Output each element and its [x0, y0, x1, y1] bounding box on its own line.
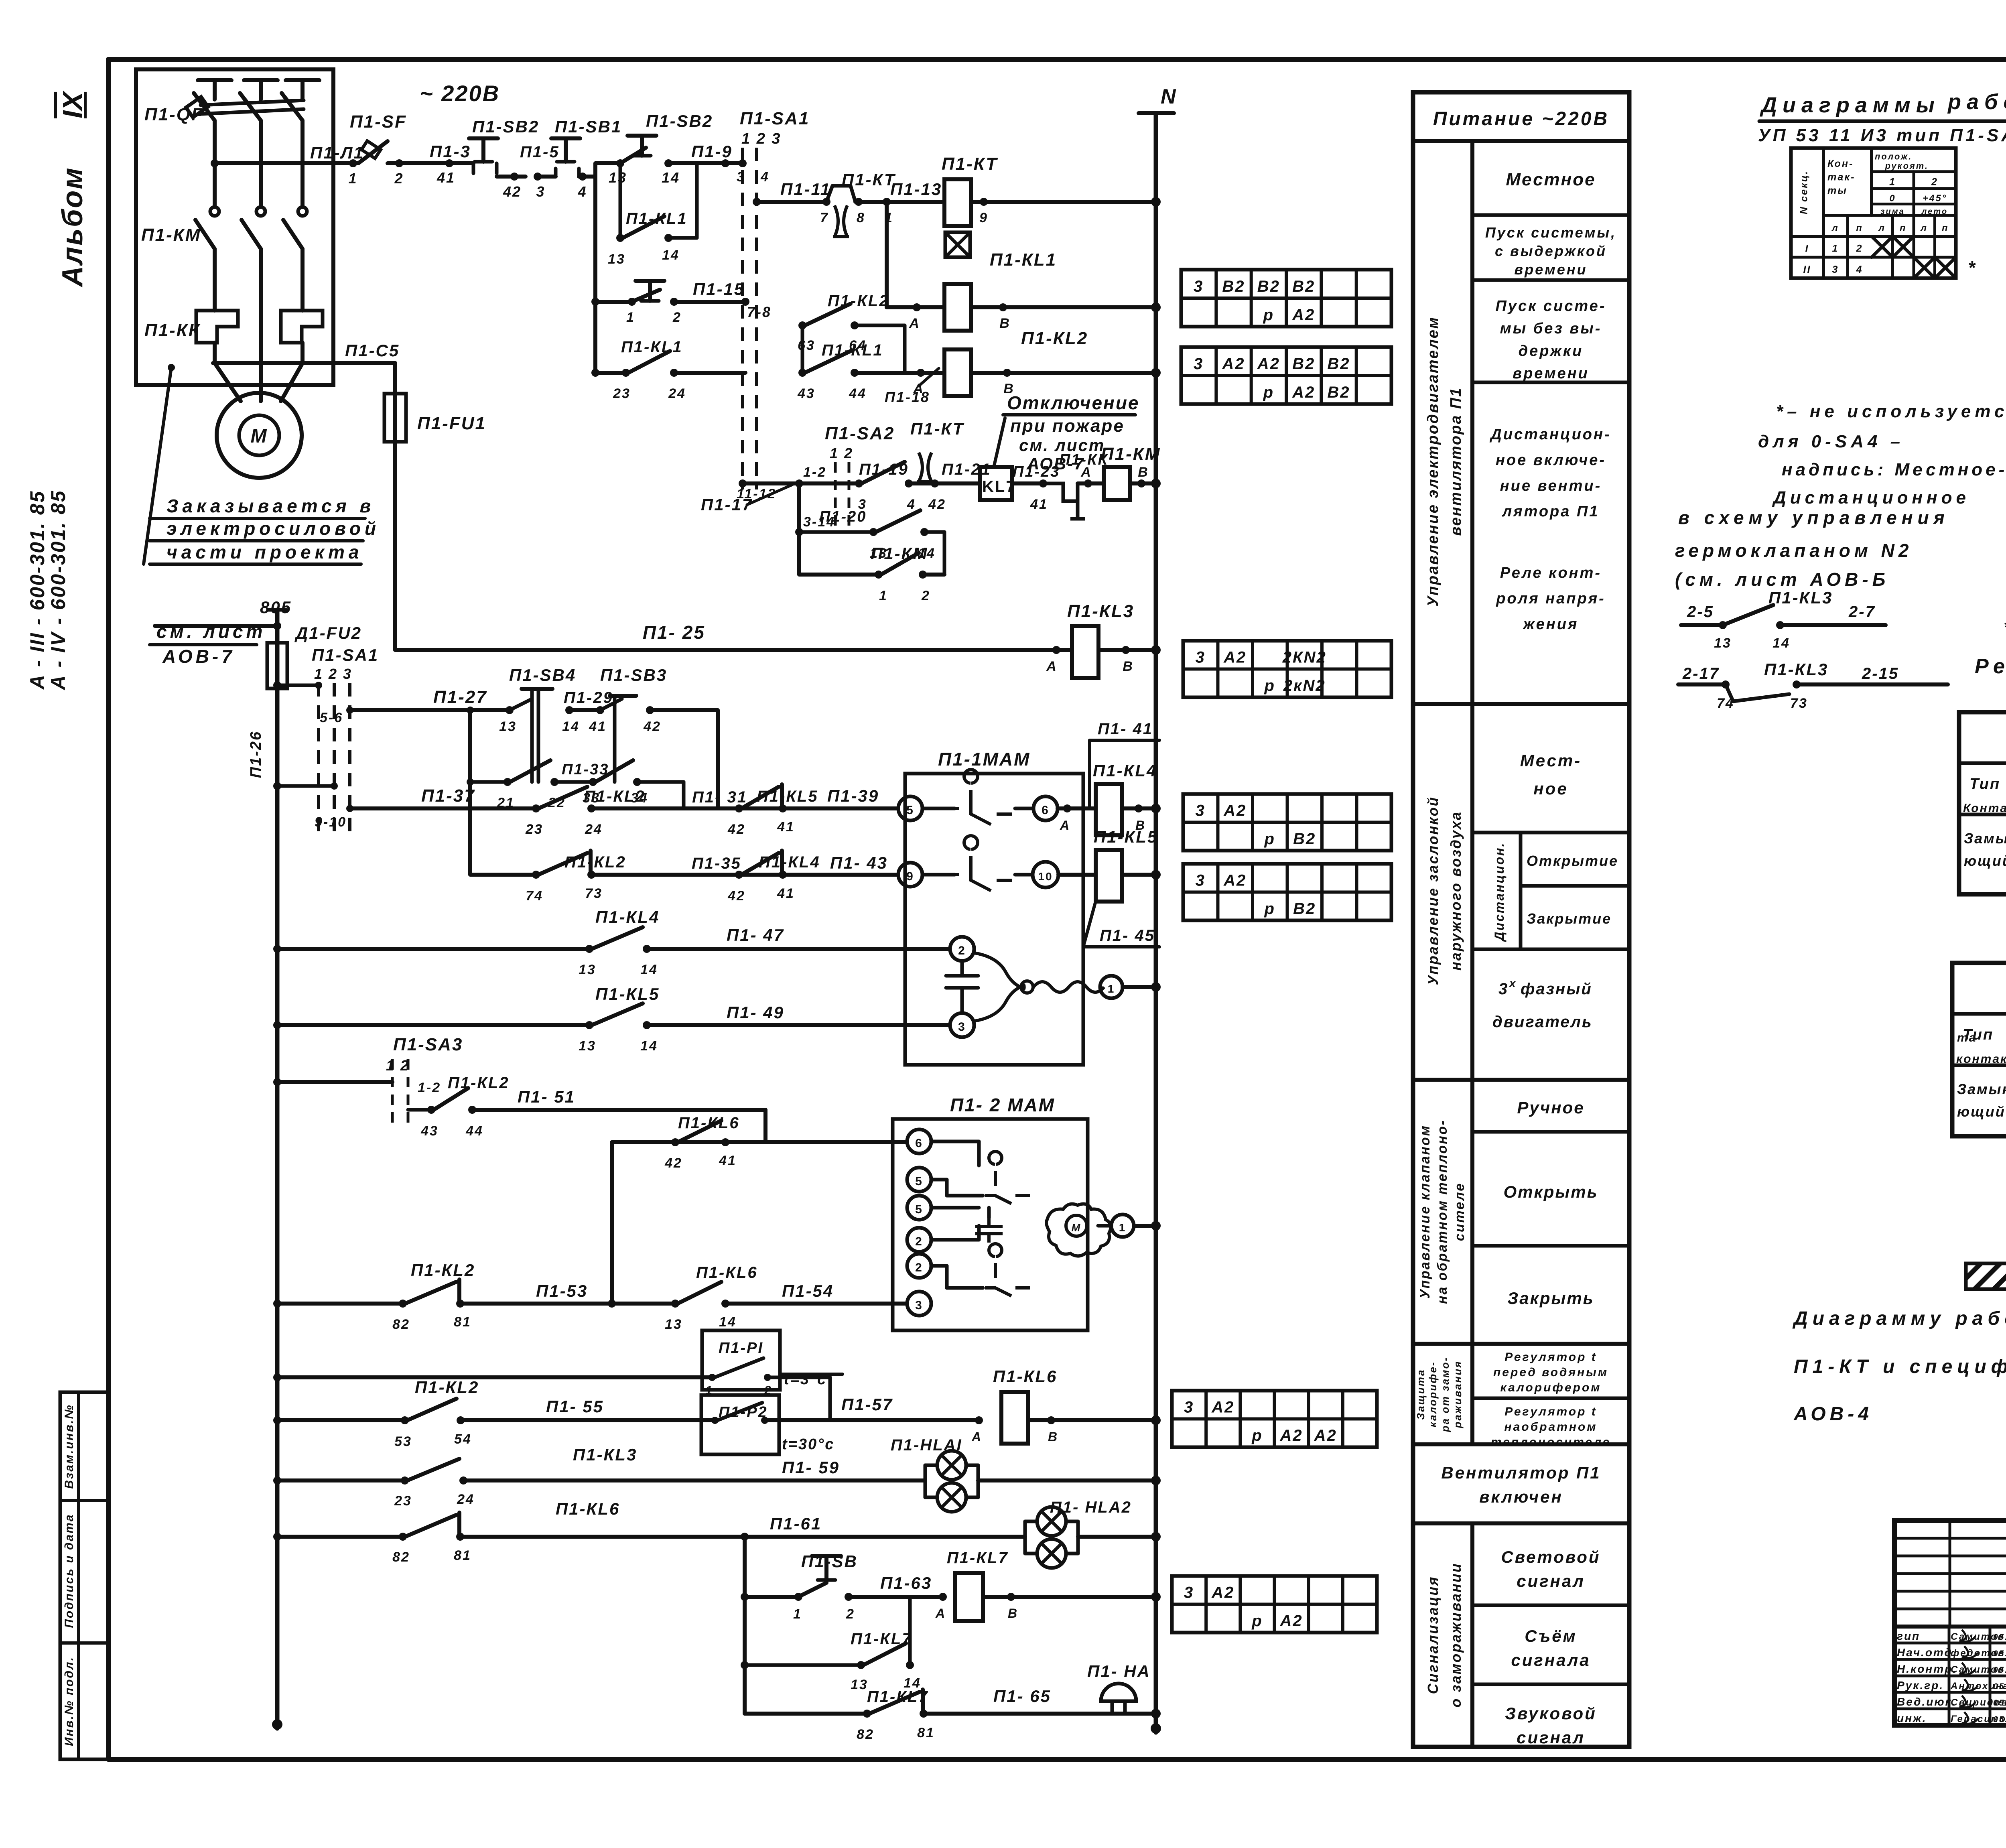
svg-text:П1-КL6: П1-КL6 [696, 1264, 758, 1281]
svg-text:II: II [1803, 264, 1811, 275]
svg-text:П1-КL5: П1-КL5 [1094, 827, 1158, 846]
svg-text:П1-3: П1-3 [430, 142, 471, 161]
svg-text:П1-КL2: П1-КL2 [828, 292, 889, 310]
svg-text:работы: работы [1947, 90, 2006, 114]
svg-text:82: 82 [392, 1549, 410, 1565]
svg-text:В2: В2 [1327, 384, 1350, 401]
svg-text:П1-КL6: П1-КL6 [678, 1114, 740, 1132]
svg-text:перед водяным: перед водяным [1493, 1366, 1608, 1379]
svg-text:73: 73 [585, 886, 603, 901]
svg-text:I: I [1805, 243, 1809, 254]
svg-text:5: 5 [915, 1203, 923, 1216]
svg-text:времени: времени [1514, 261, 1587, 278]
svg-text:+45°: +45° [1923, 193, 1947, 203]
svg-text:* – не используется: * – не используется [2004, 617, 2006, 637]
svg-text:3: 3 [1184, 1399, 1194, 1416]
svg-text:р: р [1263, 384, 1274, 401]
svg-text:53: 53 [394, 1434, 412, 1449]
svg-text:Закрыть: Закрыть [1507, 1289, 1594, 1308]
svg-text:Сигнализация: Сигнализация [1425, 1576, 1441, 1694]
svg-text:1-2: 1-2 [803, 465, 826, 480]
svg-text:Регулятор t: Регулятор t [1504, 1350, 1597, 1364]
svg-text:А2: А2 [1211, 1584, 1234, 1602]
svg-text:1 2: 1 2 [830, 445, 853, 461]
svg-text:П1-КL3: П1-КL3 [1768, 588, 1833, 607]
svg-text:Диаграмму работы реле време: Диаграмму работы реле времени [1792, 1308, 2006, 1329]
svg-text:10: 10 [1038, 870, 1053, 883]
svg-text:А: А [971, 1430, 982, 1444]
svg-text:л: л [1878, 223, 1886, 233]
svg-text:Диаграммы: Диаграммы [1760, 93, 1940, 117]
svg-text:держки: держки [1519, 343, 1584, 359]
svg-text:Реле конт-: Реле конт- [1500, 565, 1602, 581]
svg-text:14: 14 [562, 719, 580, 734]
svg-text:ние венти-: ние венти- [1500, 477, 1602, 494]
svg-text:Съём: Съём [1525, 1627, 1577, 1645]
svg-text:14: 14 [719, 1314, 737, 1330]
svg-text:П1-37: П1-37 [421, 786, 475, 806]
svg-text:р: р [1251, 1612, 1263, 1630]
svg-text:П1-КL5: П1-КL5 [595, 985, 660, 1003]
svg-text:А: А [1046, 659, 1058, 674]
svg-text:*: * [1968, 257, 1976, 278]
svg-text:6: 6 [915, 1137, 923, 1150]
svg-text:42: 42 [503, 183, 522, 200]
svg-text:А: А [1060, 818, 1070, 833]
svg-text:П1-Л1: П1-Л1 [310, 143, 364, 162]
svg-text:П1-КL1: П1-КL1 [822, 341, 883, 359]
svg-text:42: 42 [727, 822, 745, 837]
svg-text:t=30°c: t=30°c [782, 1436, 834, 1453]
svg-text:14: 14 [662, 248, 680, 263]
svg-text:3: 3 [1194, 278, 1204, 295]
svg-text:41: 41 [777, 886, 795, 901]
svg-text:Взам.инв.№: Взам.инв.№ [63, 1404, 76, 1489]
svg-text:П1- 45: П1- 45 [1100, 927, 1155, 944]
svg-text:р: р [1263, 306, 1274, 324]
svg-text:при пожаре: при пожаре [1010, 416, 1125, 436]
svg-text:П1-21: П1-21 [942, 461, 991, 478]
svg-text:Управление электродвигателем: Управление электродвигателем [1425, 316, 1442, 607]
svg-text:гип: гип [1897, 1630, 1920, 1642]
svg-text:ющий: ющий [1964, 853, 2006, 869]
svg-text:4: 4 [760, 169, 770, 185]
svg-text:П1-КL4: П1-КL4 [1093, 761, 1157, 780]
svg-text:05.84: 05.84 [1993, 1649, 2006, 1658]
svg-text:лятора П1: лятора П1 [1502, 503, 1600, 520]
svg-text:П1-КL2: П1-КL2 [411, 1261, 475, 1279]
svg-text:П1-КТ: П1-КТ [842, 170, 896, 189]
svg-text:двигатель: двигатель [1492, 1013, 1593, 1031]
svg-text:KL7: KL7 [982, 478, 1016, 496]
svg-text:7: 7 [820, 210, 829, 225]
svg-text:А2: А2 [1257, 355, 1280, 373]
svg-text:24: 24 [585, 822, 603, 837]
svg-text:электросиловой: электросиловой [166, 518, 380, 539]
svg-text:П1-КL1: П1-КL1 [990, 250, 1057, 270]
svg-text:В: В [999, 316, 1011, 331]
svg-text:А2: А2 [1223, 872, 1247, 889]
svg-text:1: 1 [348, 170, 357, 187]
svg-text:2: 2 [958, 944, 966, 957]
svg-text:сигнал: сигнал [1517, 1572, 1585, 1590]
svg-text:П1-27: П1-27 [433, 687, 487, 707]
svg-text:надпись: Местное-: надпись: Местное- [1782, 460, 2006, 479]
svg-text:43: 43 [420, 1123, 439, 1139]
svg-text:13: 13 [851, 1677, 868, 1692]
svg-text:П1-SB4: П1-SB4 [509, 666, 576, 684]
svg-text:та: та [1957, 1031, 1977, 1044]
svg-text:13: 13 [499, 719, 517, 734]
svg-text:о замораживании: о замораживании [1448, 1562, 1464, 1708]
svg-text:1: 1 [793, 1606, 802, 1622]
svg-text:74: 74 [526, 888, 543, 904]
svg-text:13: 13 [665, 1317, 682, 1332]
svg-text:П1-SA1: П1-SA1 [740, 109, 810, 128]
svg-text:Регуляторы температуры: Регуляторы температуры [1975, 655, 2006, 678]
svg-text:с выдержкой: с выдержкой [1495, 243, 1607, 259]
svg-text:А2: А2 [1314, 1427, 1337, 1444]
svg-text:1 2 3: 1 2 3 [741, 130, 782, 147]
svg-text:Д1-FU2: Д1-FU2 [294, 623, 362, 642]
svg-text:3: 3 [1498, 980, 1509, 998]
svg-text:П1-54: П1-54 [782, 1281, 834, 1300]
svg-text:П1-КК: П1-КК [144, 321, 201, 340]
svg-text:П1-КМ: П1-КМ [141, 225, 201, 245]
svg-text:23: 23 [525, 822, 543, 837]
svg-text:~ 220В: ~ 220В [420, 81, 500, 106]
svg-text:42: 42 [727, 888, 745, 904]
svg-text:П1-13: П1-13 [890, 180, 942, 199]
svg-text:п: п [1942, 223, 1949, 233]
svg-text:П1-5: П1-5 [520, 143, 560, 161]
svg-text:2-15: 2-15 [1862, 665, 1899, 682]
svg-text:П1-33: П1-33 [562, 761, 609, 778]
svg-text:2-17: 2-17 [1682, 665, 1720, 682]
svg-text:В: В [1123, 659, 1134, 674]
svg-text:раживания: раживания [1452, 1360, 1464, 1428]
svg-text:А2: А2 [1223, 649, 1247, 666]
svg-text:Тип: Тип [1969, 776, 2000, 792]
svg-text:2: 2 [394, 170, 404, 187]
svg-text:калорифером: калорифером [1500, 1381, 1602, 1394]
svg-text:1: 1 [626, 310, 635, 325]
svg-text:М: М [1072, 1222, 1082, 1234]
svg-text:р: р [1264, 900, 1275, 918]
svg-text:теплоносителе: теплоносителе [1491, 1436, 1611, 1449]
svg-text:05.84: 05.84 [1993, 1682, 2006, 1691]
svg-text:3: 3 [915, 1299, 923, 1312]
svg-text:П1-61: П1-61 [770, 1514, 822, 1533]
svg-text:рукоят.: рукоят. [1885, 161, 1929, 171]
svg-text:сителе: сителе [1452, 1182, 1467, 1241]
svg-text:5: 5 [915, 1175, 923, 1188]
svg-text:А2: А2 [1292, 384, 1315, 401]
svg-text:N секц.: N секц. [1799, 170, 1810, 214]
svg-text:П1-11: П1-11 [780, 180, 831, 199]
svg-text:п: п [1856, 223, 1863, 233]
svg-text:р: р [1264, 830, 1275, 848]
svg-text:5: 5 [906, 804, 914, 817]
svg-text:Звуковой: Звуковой [1505, 1704, 1597, 1723]
svg-text:В2: В2 [1292, 355, 1315, 373]
svg-text:9: 9 [979, 210, 988, 225]
svg-text:3: 3 [958, 1020, 966, 1034]
svg-text:N: N [1161, 85, 1177, 108]
svg-text:0: 0 [1889, 193, 1896, 203]
svg-text:П1-КТ: П1-КТ [942, 154, 998, 174]
svg-text:Управление заслонкой: Управление заслонкой [1425, 796, 1441, 985]
svg-text:В2: В2 [1292, 278, 1315, 295]
svg-text:П1-QF: П1-QF [144, 105, 203, 124]
svg-text:41: 41 [437, 169, 455, 186]
svg-text:П1-SB3: П1-SB3 [600, 666, 667, 684]
svg-text:42: 42 [928, 497, 946, 512]
svg-text:П1-19: П1-19 [859, 461, 909, 478]
svg-text:УП 53 11 И3 тип П1-SA3: УП 53 11 И3 тип П1-SA3 [1758, 126, 2006, 145]
svg-text:14: 14 [640, 962, 658, 977]
svg-text:1 2 3: 1 2 3 [314, 666, 352, 682]
svg-text:73: 73 [1790, 696, 1808, 711]
svg-text:жения: жения [1523, 616, 1579, 633]
svg-text:л: л [1831, 223, 1839, 233]
svg-text:Местное: Местное [1506, 170, 1596, 189]
svg-text:Дистанционное: Дистанционное [1772, 488, 1970, 508]
svg-text:П1- 31: П1- 31 [692, 788, 747, 806]
svg-text:П1-SA2: П1-SA2 [825, 424, 895, 443]
svg-text:3: 3 [1196, 649, 1206, 666]
svg-text:Ручное: Ручное [1517, 1098, 1584, 1117]
svg-text:Регулятор t: Регулятор t [1504, 1405, 1597, 1418]
svg-text:3: 3 [1196, 802, 1206, 820]
svg-text:В2: В2 [1222, 278, 1245, 295]
svg-text:М: М [251, 426, 268, 447]
svg-text:П1-КL6: П1-КL6 [556, 1499, 620, 1518]
svg-text:П1-КL6: П1-КL6 [993, 1367, 1057, 1386]
svg-text:П1-63: П1-63 [880, 1574, 932, 1592]
svg-text:П1-КL3: П1-КL3 [573, 1445, 637, 1464]
svg-text:7-8: 7-8 [747, 304, 772, 320]
svg-text:П1- 41: П1- 41 [1098, 720, 1153, 738]
svg-text:2: 2 [1856, 243, 1863, 254]
svg-text:П1-КL3: П1-КL3 [1764, 660, 1828, 679]
svg-text:полож.: полож. [1875, 152, 1912, 162]
svg-text:А2: А2 [1280, 1612, 1303, 1630]
svg-text:3: 3 [1832, 264, 1839, 275]
svg-text:41: 41 [1030, 497, 1048, 512]
svg-text:АОВ-7: АОВ-7 [162, 646, 235, 667]
svg-text:П1-PI: П1-PI [719, 1340, 763, 1357]
svg-text:П1-КL2: П1-КL2 [1021, 329, 1088, 348]
svg-text:Управление клапаном: Управление клапаном [1417, 1125, 1433, 1299]
svg-text:63: 63 [798, 338, 815, 353]
svg-text:Альбом: Альбом [57, 167, 89, 287]
svg-text:вентилятора П1: вентилятора П1 [1448, 387, 1464, 536]
svg-text:81: 81 [454, 1314, 471, 1330]
svg-text:6: 6 [1042, 804, 1050, 817]
svg-text:А2: А2 [1292, 306, 1315, 324]
svg-text:23: 23 [394, 1493, 412, 1509]
svg-text:13: 13 [1714, 636, 1732, 651]
svg-text:1: 1 [1832, 243, 1839, 254]
svg-text:на обратном теплоно-: на обратном теплоно- [1435, 1119, 1450, 1304]
svg-text:П1-35: П1-35 [692, 855, 741, 872]
svg-text:В: В [1048, 1430, 1058, 1444]
svg-text:24: 24 [668, 386, 686, 401]
svg-text:14: 14 [640, 1038, 658, 1054]
svg-text:сигнал: сигнал [1517, 1728, 1585, 1747]
svg-text:х: х [1509, 977, 1517, 989]
svg-text:8: 8 [857, 210, 865, 225]
svg-text:23: 23 [613, 386, 631, 401]
svg-text:П1- 2 МАМ: П1- 2 МАМ [950, 1095, 1055, 1115]
svg-text:Дистанцион.: Дистанцион. [1492, 842, 1507, 942]
svg-text:ное включе-: ное включе- [1496, 452, 1606, 469]
svg-text:А2: А2 [1222, 355, 1245, 373]
svg-text:р: р [1264, 677, 1275, 695]
svg-text:Вентилятор П1: Вентилятор П1 [1441, 1463, 1601, 1482]
svg-text:Инв.№ подл.: Инв.№ подл. [63, 1656, 76, 1746]
svg-text:3: 3 [1194, 355, 1204, 373]
svg-text:роля напря-: роля напря- [1496, 590, 1606, 607]
svg-text:П1-С5: П1-С5 [345, 341, 400, 360]
svg-text:В: В [1008, 1606, 1018, 1621]
svg-text:П1-SB2: П1-SB2 [646, 112, 713, 130]
svg-text:13: 13 [609, 169, 627, 186]
svg-text:П1-26: П1-26 [248, 731, 264, 778]
svg-text:1-2: 1-2 [418, 1080, 441, 1095]
svg-text:ное: ное [1533, 779, 1568, 798]
svg-text:44: 44 [465, 1123, 483, 1139]
svg-text:А: А [935, 1606, 946, 1621]
svg-text:Рук.гр.: Рук.гр. [1897, 1679, 1944, 1692]
svg-text:82: 82 [857, 1727, 874, 1742]
svg-text:2: 2 [672, 310, 682, 325]
svg-text:А2: А2 [1211, 1399, 1234, 1416]
svg-text:44: 44 [849, 386, 867, 401]
svg-text:14: 14 [1773, 636, 1790, 651]
svg-text:Пуск систе-: Пуск систе- [1496, 298, 1606, 315]
svg-text:Световой: Световой [1501, 1547, 1600, 1566]
svg-text:П1-КL2: П1-КL2 [584, 788, 646, 805]
svg-text:4: 4 [1856, 264, 1863, 275]
svg-text:2: 2 [921, 588, 930, 603]
svg-text:П1-15: П1-15 [693, 280, 745, 299]
svg-text:13: 13 [579, 1038, 596, 1054]
svg-text:А2: А2 [1223, 802, 1247, 820]
svg-text:В: В [1138, 465, 1149, 480]
svg-text:калорифе-: калорифе- [1427, 1361, 1439, 1428]
svg-text:П1-FU1: П1-FU1 [417, 414, 486, 433]
svg-text:П1-КL1: П1-КL1 [626, 210, 688, 227]
svg-text:П1-SA1: П1-SA1 [312, 646, 379, 664]
svg-text:п: п [1900, 223, 1907, 233]
svg-text:2-7: 2-7 [1848, 603, 1876, 621]
svg-text:Замыка-: Замыка- [1964, 830, 2006, 847]
svg-text:1: 1 [1119, 1221, 1127, 1234]
svg-text:так-: так- [1827, 172, 1856, 183]
svg-text:Дистанцион-: Дистанцион- [1489, 426, 1611, 443]
svg-text:2-5: 2-5 [1687, 603, 1714, 621]
svg-text:4: 4 [577, 183, 587, 200]
svg-text:П1-39: П1-39 [827, 786, 879, 805]
svg-text:П1- 49: П1- 49 [727, 1003, 784, 1022]
svg-text:фазный: фазный [1521, 980, 1592, 998]
svg-text:Защита: Защита [1415, 1369, 1427, 1420]
svg-text:П1- 65: П1- 65 [993, 1687, 1051, 1706]
svg-text:05.84: 05.84 [1993, 1715, 2006, 1724]
svg-text:П1-57: П1-57 [841, 1395, 893, 1414]
svg-text:В2: В2 [1327, 355, 1350, 373]
svg-text:ющий: ющий [1957, 1103, 2006, 1120]
svg-text:л: л [1920, 223, 1928, 233]
svg-text:3: 3 [1196, 872, 1206, 889]
svg-text:81: 81 [917, 1725, 935, 1740]
svg-text:для 0-SA4 –: для 0-SA4 – [1758, 432, 1904, 451]
svg-text:3: 3 [536, 183, 545, 200]
svg-text:Питание ~220В: Питание ~220В [1433, 108, 1609, 130]
svg-text:Заказывается в: Заказывается в [166, 496, 375, 516]
svg-text:в схему управления: в схему управления [1678, 507, 1949, 528]
svg-text:(см. лист АОВ-Б: (см. лист АОВ-Б [1675, 569, 1889, 590]
svg-text:А: А [1080, 465, 1092, 480]
svg-text:IX: IX [57, 90, 88, 118]
svg-text:2: 2 [1931, 176, 1938, 187]
svg-text:П1-SB2: П1-SB2 [472, 117, 539, 136]
svg-text:5-6: 5-6 [320, 710, 343, 725]
svg-text:*– не используется: *– не используется [1776, 402, 2006, 421]
svg-text:П1-SB1: П1-SB1 [555, 117, 622, 136]
svg-text:Мест-: Мест- [1520, 751, 1582, 770]
svg-text:9-10: 9-10 [315, 814, 347, 830]
svg-text:В2: В2 [1293, 830, 1316, 848]
svg-text:Вед.июк.: Вед.июк. [1897, 1696, 1957, 1708]
svg-text:42: 42 [643, 719, 661, 734]
svg-text:П1- 47: П1- 47 [727, 926, 784, 944]
svg-text:А: А [909, 316, 920, 331]
svg-text:1: 1 [1108, 983, 1115, 995]
svg-text:Кон-: Кон- [1827, 158, 1854, 169]
svg-text:мы без вы-: мы без вы- [1500, 320, 1602, 337]
svg-text:24: 24 [457, 1492, 475, 1507]
svg-text:3: 3 [1184, 1584, 1194, 1602]
svg-text:включен: включен [1479, 1487, 1563, 1506]
svg-text:П1-КТ и спецификацию см.лис: П1-КТ и спецификацию см.лист [1794, 1356, 2006, 1377]
svg-text:П1-29: П1-29 [564, 689, 613, 707]
svg-text:А2: А2 [1280, 1427, 1303, 1444]
svg-text:наобратном: наобратном [1504, 1420, 1597, 1434]
svg-text:4: 4 [907, 497, 916, 512]
svg-text:П1-КМ: П1-КМ [1101, 444, 1161, 464]
svg-text:05.84: 05.84 [1993, 1665, 2006, 1675]
svg-text:2: 2 [846, 1606, 855, 1622]
svg-text:П1-КL4: П1-КL4 [595, 908, 660, 926]
svg-text:Пуск системы,: Пуск системы, [1485, 224, 1616, 241]
svg-text:81: 81 [454, 1548, 471, 1563]
svg-text:П1- 25: П1- 25 [643, 622, 705, 643]
svg-text:13: 13 [608, 252, 625, 267]
svg-text:А - IV - 600-301. 85: А - IV - 600-301. 85 [47, 489, 69, 690]
svg-text:П1-1МАМ: П1-1МАМ [938, 749, 1030, 770]
svg-text:П1-КL3: П1-КL3 [1067, 601, 1134, 621]
svg-text:А - III - 600-301. 85: А - III - 600-301. 85 [26, 490, 49, 690]
svg-text:наружного воздуха: наружного воздуха [1448, 811, 1464, 971]
svg-text:П1-КL7: П1-КL7 [947, 1549, 1009, 1567]
svg-text:инж.: инж. [1897, 1712, 1927, 1724]
svg-text:2КN2: 2КN2 [1282, 649, 1327, 666]
svg-text:П1- 43: П1- 43 [830, 853, 888, 872]
svg-text:ра от замо-: ра от замо- [1439, 1357, 1451, 1432]
